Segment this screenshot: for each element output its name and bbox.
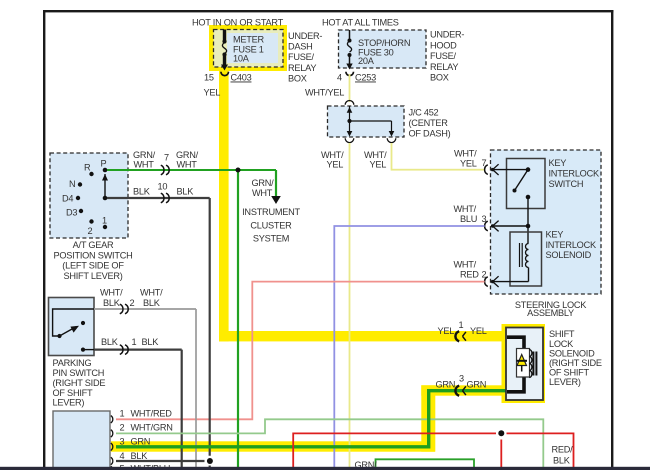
- shift lock solenoid highlight box: [502, 324, 546, 403]
- svg-text:WHT/YEL: WHT/YEL: [305, 88, 344, 98]
- label WHT/YEL pin 7: [454, 148, 487, 168]
- svg-text:RELAY: RELAY: [430, 62, 458, 72]
- svg-text:2: 2: [88, 226, 93, 236]
- svg-text:WHT/: WHT/: [454, 204, 477, 214]
- pin 5 WHT/BLU label: [120, 464, 171, 470]
- svg-text:HOT AT ALL TIMES: HOT AT ALL TIMES: [322, 18, 399, 28]
- svg-text:YEL: YEL: [470, 326, 487, 336]
- wire YEL highlighted from fuse 1 to shift lock solenoid: [219, 71, 502, 341]
- wire WHT/RED from pin 2 to bottom connector pin 1: [116, 282, 485, 420]
- pin 4 BLK label and wire: [116, 451, 213, 464]
- svg-text:METER: METER: [233, 35, 265, 45]
- svg-text:(RIGHT SIDE: (RIGHT SIDE: [53, 378, 106, 388]
- svg-text:1: 1: [120, 409, 125, 419]
- svg-text:10: 10: [158, 182, 168, 192]
- svg-text:7: 7: [164, 153, 169, 163]
- svg-text:WHT: WHT: [252, 188, 273, 198]
- svg-text:OF SHIFT: OF SHIFT: [549, 368, 589, 378]
- svg-text:RED: RED: [460, 270, 479, 280]
- svg-text:RED/: RED/: [552, 445, 574, 455]
- steering lock assembly (dashed box): [491, 150, 602, 294]
- connector C403 pin 15: [204, 72, 252, 98]
- svg-text:D3: D3: [66, 208, 77, 218]
- svg-text:BLK: BLK: [177, 186, 195, 196]
- svg-text:HOOD: HOOD: [430, 40, 457, 50]
- svg-text:SOLENOID: SOLENOID: [546, 250, 592, 260]
- svg-text:SYSTEM: SYSTEM: [253, 234, 289, 244]
- svg-text:(LEFT SIDE OF: (LEFT SIDE OF: [62, 261, 124, 271]
- label STEERING LOCK ASSEMBLY: [515, 300, 587, 318]
- connector pin 2 at steering lock: [454, 259, 499, 287]
- svg-text:BLU: BLU: [460, 214, 477, 224]
- svg-text:GRN: GRN: [436, 379, 456, 389]
- svg-text:3: 3: [482, 214, 487, 224]
- connector pin 3 at steering lock: [454, 204, 499, 232]
- A/T gear position switch (dashed box): [50, 153, 128, 238]
- label UNDER-HOOD FUSE/RELAY BOX: [430, 30, 464, 83]
- svg-text:2: 2: [130, 298, 135, 308]
- svg-text:R: R: [84, 163, 91, 173]
- wire GRN highlight band (pin 3 to shift lock solenoid): [111, 385, 502, 451]
- wire GRN/WHT from P to instrument cluster and down: [107, 168, 276, 468]
- connector pin 3 GRN on highlighted wire: [436, 373, 487, 395]
- node junction pin3/switch/solenoid: [491, 224, 530, 244]
- svg-text:D4: D4: [62, 194, 73, 204]
- svg-text:BLK: BLK: [101, 337, 119, 347]
- svg-text:YEL: YEL: [204, 88, 221, 98]
- svg-text:C253: C253: [355, 73, 376, 83]
- svg-text:4: 4: [337, 73, 342, 83]
- svg-text:C403: C403: [231, 73, 252, 83]
- svg-text:2: 2: [482, 270, 487, 280]
- svg-text:LEVER): LEVER): [53, 398, 85, 408]
- svg-text:WHT/RED: WHT/RED: [131, 409, 173, 419]
- wire WHT/YEL left leg of J/C down to bottom: [321, 143, 350, 467]
- svg-text:BOX: BOX: [430, 73, 449, 83]
- svg-text:3: 3: [459, 373, 464, 383]
- label SHIFT LOCK SOLENOID: [549, 329, 602, 387]
- svg-text:RELAY: RELAY: [288, 63, 316, 73]
- svg-text:KEY: KEY: [546, 230, 564, 240]
- svg-text:BLK: BLK: [103, 298, 121, 308]
- svg-text:UNDER-: UNDER-: [288, 31, 322, 41]
- svg-text:SOLENOID: SOLENOID: [549, 348, 595, 358]
- svg-text:2: 2: [120, 423, 125, 433]
- svg-text:WHT/: WHT/: [454, 148, 477, 158]
- label RED/BLK: [552, 445, 574, 466]
- svg-text:DASH: DASH: [288, 42, 313, 52]
- pin 2 WHT/GRN label and wire: [116, 419, 543, 467]
- wire BLK from A/T gear switch down to junction: [107, 198, 210, 467]
- bottom connector box: [53, 411, 113, 470]
- svg-text:(RIGHT SIDE: (RIGHT SIDE: [549, 358, 602, 368]
- svg-text:WHT/: WHT/: [140, 288, 163, 298]
- wire WHT/YEL from C253 to J/C 452: [349, 74, 351, 102]
- connector pin 1 YEL on highlighted wire: [438, 320, 487, 341]
- svg-text:WHT/GRN: WHT/GRN: [131, 423, 173, 433]
- svg-text:FUSE/: FUSE/: [288, 52, 315, 62]
- svg-text:CLUSTER: CLUSTER: [250, 220, 292, 230]
- svg-text:P: P: [101, 159, 107, 169]
- svg-text:ASSEMBLY: ASSEMBLY: [527, 308, 574, 318]
- svg-text:WHT/: WHT/: [100, 288, 123, 298]
- wire RED bottom right: [293, 430, 573, 467]
- svg-text:STOP/HORN: STOP/HORN: [358, 38, 410, 48]
- wire WHT/BLU from pin 3 down to bottom: [334, 226, 484, 467]
- junction connector J/C 452: [328, 100, 451, 142]
- svg-text:WHT/: WHT/: [454, 259, 477, 269]
- under-hood fuse/relay box (dashed) with STOP/HORN FUSE 30: [322, 18, 426, 69]
- bottom divider band: [0, 467, 650, 470]
- key interlock solenoid L1: [491, 230, 597, 286]
- arrow to instrument cluster system: [242, 178, 300, 244]
- connector pin 10 BLK: [133, 182, 194, 203]
- wire BLK from parking pin switch down: [94, 350, 182, 467]
- svg-text:(CENTER: (CENTER: [409, 118, 449, 128]
- svg-text:1: 1: [459, 320, 464, 330]
- svg-text:15: 15: [204, 73, 214, 83]
- svg-text:PIN SWITCH: PIN SWITCH: [53, 368, 105, 378]
- svg-text:HOT IN ON OR START: HOT IN ON OR START: [192, 18, 284, 28]
- svg-text:BLK: BLK: [142, 337, 160, 347]
- svg-text:GRN/: GRN/: [252, 178, 275, 188]
- wire WHT/BLK from parking pin switch down: [94, 309, 196, 467]
- svg-text:OF SHIFT: OF SHIFT: [53, 388, 93, 398]
- svg-text:YEL: YEL: [370, 159, 387, 169]
- fuse box highlight around METER FUSE 1: [209, 25, 287, 71]
- label UNDER-DASH FUSE/RELAY BOX: [288, 31, 322, 83]
- svg-text:WHT: WHT: [177, 159, 198, 169]
- svg-text:FUSE/: FUSE/: [430, 51, 457, 61]
- svg-text:OF DASH): OF DASH): [409, 128, 451, 138]
- label A/T GEAR POSITION SWITCH: [54, 240, 133, 281]
- svg-text:LOCK: LOCK: [549, 339, 574, 349]
- connector pin 2 WHT/BLK: [100, 288, 163, 314]
- fuse F1 METER FUSE 1 element: [221, 30, 228, 71]
- connector pin 7 at steering lock: [485, 164, 499, 175]
- svg-text:20A: 20A: [358, 56, 375, 66]
- connector pin 1 BLK: [101, 337, 159, 354]
- parking pin switch box: [49, 298, 95, 356]
- svg-text:INSTRUMENT: INSTRUMENT: [242, 207, 300, 217]
- wire WHT/YEL right leg of J/C to key interlock switch pin 7: [364, 143, 485, 171]
- svg-text:INTERLOCK: INTERLOCK: [546, 240, 597, 250]
- fuse F2 STOP/HORN FUSE 30 element: [346, 30, 352, 70]
- svg-text:1: 1: [132, 337, 137, 347]
- svg-text:PARKING: PARKING: [53, 358, 92, 368]
- svg-text:BLK: BLK: [131, 451, 149, 461]
- svg-text:A/T GEAR: A/T GEAR: [73, 240, 114, 250]
- label PARKING PIN SWITCH: [53, 358, 106, 408]
- shift lock solenoid L2: [506, 328, 543, 401]
- pin 1 WHT/RED label: [120, 409, 173, 419]
- svg-text:GRN: GRN: [467, 379, 487, 389]
- svg-text:YEL: YEL: [460, 159, 477, 169]
- key interlock switch U1: [491, 158, 600, 226]
- connector pin 7 GRN/WHT: [133, 150, 199, 175]
- under-dash fuse/relay box (dashed) with METER FUSE 1: [192, 18, 284, 68]
- svg-text:SHIFT LEVER): SHIFT LEVER): [63, 271, 122, 281]
- svg-text:KEY: KEY: [549, 158, 567, 168]
- svg-text:BLK: BLK: [143, 298, 161, 308]
- pin 3 GRN label and wire: [116, 391, 507, 447]
- wire GRN bracket at bottom: [355, 459, 475, 470]
- svg-text:4: 4: [120, 451, 125, 461]
- svg-text:INTERLOCK: INTERLOCK: [549, 168, 600, 178]
- svg-text:SWITCH: SWITCH: [549, 179, 584, 189]
- svg-text:YEL: YEL: [438, 326, 455, 336]
- svg-text:YEL: YEL: [327, 159, 344, 169]
- svg-text:SHIFT: SHIFT: [549, 329, 575, 339]
- svg-text:N: N: [69, 179, 75, 189]
- svg-text:BLK: BLK: [553, 456, 571, 466]
- svg-text:J/C 452: J/C 452: [409, 107, 439, 117]
- svg-text:BLK: BLK: [133, 186, 151, 196]
- svg-text:WHT: WHT: [134, 159, 155, 169]
- svg-text:BOX: BOX: [288, 73, 307, 83]
- svg-text:LEVER): LEVER): [549, 377, 581, 387]
- svg-text:POSITION SWITCH: POSITION SWITCH: [54, 250, 133, 260]
- svg-text:10A: 10A: [233, 54, 250, 64]
- svg-text:UNDER-: UNDER-: [430, 30, 464, 40]
- svg-text:1: 1: [102, 216, 107, 226]
- connector C253 pin 4: [305, 72, 376, 98]
